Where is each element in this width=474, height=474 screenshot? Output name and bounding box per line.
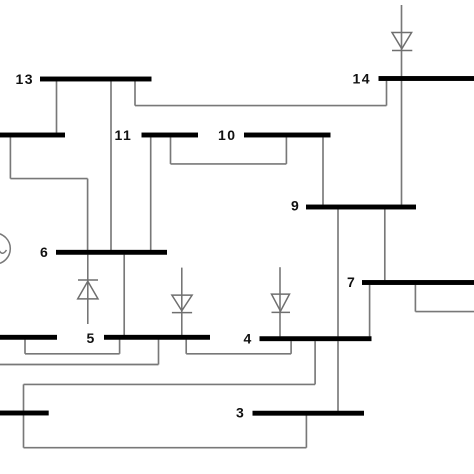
- svg-text:13: 13: [16, 71, 35, 87]
- wire bus11 to bus10 vertical to 10: [285, 137, 287, 164]
- svg-text:3: 3: [236, 405, 245, 421]
- wire bus4 to bus3: [337, 341, 339, 411]
- wire bus2 column through bar: [23, 384, 25, 447]
- wire bus5 to bus2 vertical: [158, 340, 160, 365]
- wire bus11 to bus10 vertical from 11: [170, 137, 172, 164]
- bus 9 bar: [306, 205, 416, 210]
- wire bus7 to bus8 vertical: [414, 285, 416, 312]
- wire bus9 to bus4: [337, 209, 339, 336]
- wire bus2 to bus3 vertical to 3: [305, 416, 307, 448]
- bus 4 bar: [260, 336, 372, 341]
- bus 13 bar: [40, 77, 152, 82]
- wire bus1 to bus5 vertical from 1: [24, 340, 26, 354]
- bus 7 bar: [362, 280, 474, 285]
- wire bus9 to bus7: [384, 209, 386, 280]
- svg-text:4: 4: [244, 330, 253, 346]
- wire bus6 to bus5: [123, 255, 125, 335]
- wire bus12 to bus6 vertical from 12: [9, 137, 11, 178]
- bus 11 bar: [142, 133, 199, 138]
- wire bus5 to bus4 vertical from 5: [185, 340, 187, 354]
- wire bus12 to bus6 horizontal: [10, 178, 87, 180]
- wire bus5 to bus2 horizontal: [0, 364, 159, 366]
- svg-text:7: 7: [347, 274, 356, 290]
- load arrow at bus 6: [78, 255, 98, 324]
- bus 2 bar: [0, 411, 49, 416]
- wire bus13 to bus14 vertical from 13: [134, 81, 136, 106]
- svg-text:5: 5: [87, 330, 96, 346]
- wire bus13 to bus12: [56, 81, 58, 133]
- bus 1 bar: [0, 335, 57, 340]
- wire bus1 to bus5 horizontal: [25, 353, 120, 355]
- bus 5 bar: [104, 335, 210, 340]
- wire bus4 to bus2 horizontal: [24, 383, 316, 385]
- svg-text:14: 14: [353, 71, 372, 87]
- bus 10 bar: [244, 133, 331, 138]
- wire bus5 to bus4 horizontal: [186, 353, 291, 355]
- svg-text:9: 9: [291, 198, 300, 214]
- load arrow at bus 14: [392, 33, 412, 51]
- wire bus13 to bus14 vertical to 14: [386, 81, 388, 106]
- generator G at left edge: [0, 233, 10, 264]
- wire bus7 to bus8 horizontal: [415, 311, 474, 313]
- wire bus10 to bus9: [322, 137, 324, 204]
- svg-text:10: 10: [218, 127, 237, 143]
- load arrow at bus 4: [272, 267, 291, 336]
- wire bus1 to bus5 vertical to 5: [119, 340, 121, 354]
- wire bus13 to bus6: [110, 81, 112, 250]
- wire bus11 to bus10 horizontal: [171, 163, 287, 165]
- bus 6 bar: [56, 250, 167, 255]
- wire bus5 to bus4 vertical to 4: [290, 341, 292, 354]
- wire bus11 to bus6: [150, 137, 152, 250]
- wire load feeder and bus14 to bus9: [401, 5, 403, 205]
- wire bus12 to bus6 vertical to 6: [87, 179, 89, 250]
- bus 3 bar: [253, 411, 365, 416]
- bus 12 bar: [0, 133, 65, 138]
- svg-text:11: 11: [115, 127, 133, 143]
- bus 14 bar: [379, 76, 474, 81]
- wire bus2 to bus3 horizontal: [24, 447, 307, 449]
- wire bus7 to bus4: [369, 285, 371, 337]
- svg-text:6: 6: [40, 244, 49, 260]
- wire bus4 to bus2 vertical: [314, 341, 316, 384]
- wire bus13 to bus14 horizontal: [135, 105, 387, 107]
- load arrow at bus 5: [172, 268, 192, 335]
